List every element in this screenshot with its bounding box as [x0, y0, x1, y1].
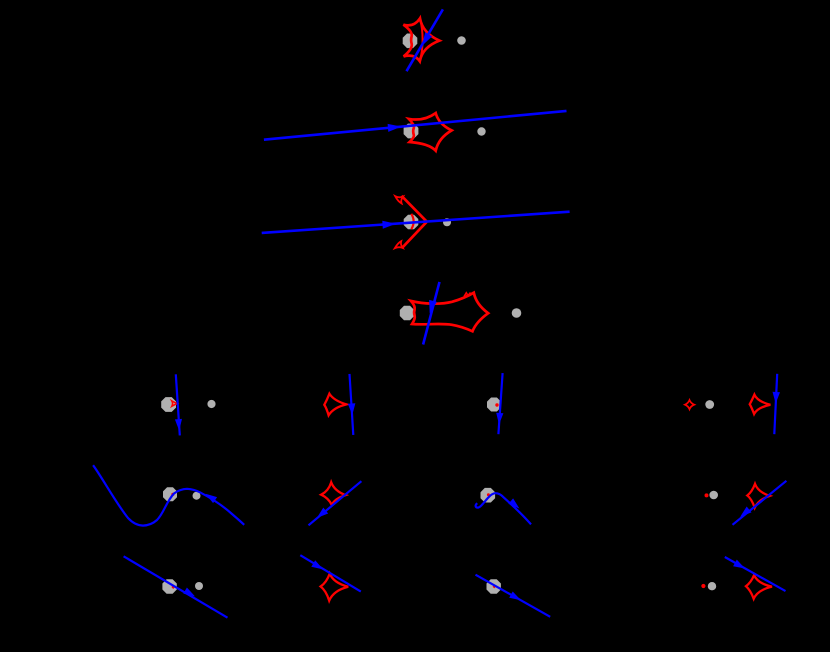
row1: source trajectory line	[407, 9, 443, 71]
row3: central caustic wedge upper arm	[402, 196, 427, 222]
b32: arrow	[311, 560, 323, 569]
b31: lens secondary dot	[195, 582, 203, 590]
row4: lens primary (gray octagon)	[400, 306, 414, 320]
b21: lens secondary dot	[193, 492, 201, 500]
b33: tiny red point caustic	[493, 585, 496, 588]
row3: source trajectory line	[262, 212, 570, 233]
row4: trajectory arrow	[429, 300, 437, 314]
b32: astroid caustic	[321, 574, 349, 601]
b31: trajectory line	[124, 556, 228, 617]
b33: trajectory line	[476, 575, 551, 617]
b24: tiny red caustic dot	[705, 493, 709, 497]
b11: lens secondary dot	[207, 400, 215, 408]
b32: trajectory line	[300, 555, 361, 591]
b13: tiny red point caustic	[495, 403, 498, 406]
row4: wide resonant caustic (red)	[411, 293, 488, 332]
b13: trajectory line	[498, 373, 502, 434]
row3: lens secondary (gray dot)	[443, 218, 451, 226]
b11: lens primary	[161, 397, 176, 412]
b23: lens (gray octagon)	[481, 488, 496, 503]
row1: inner fold doubling	[420, 18, 423, 61]
row2: source trajectory line	[264, 111, 567, 140]
b31: lens primary	[162, 579, 176, 593]
row4: source trajectory line	[423, 282, 439, 345]
b33: arrow	[509, 592, 521, 601]
b14: gray dot companion	[705, 400, 714, 409]
b21: tiny red caustic dot	[171, 493, 174, 496]
b21: parallax curved trajectory	[93, 465, 244, 525]
row3: central caustic wedge lower arm	[402, 222, 427, 248]
row3: lower triangular caustic	[395, 241, 403, 248]
row2: resonant caustic (red)	[409, 113, 452, 151]
b11: tiny central caustic	[172, 401, 178, 406]
b14: central caustic	[750, 395, 771, 414]
b34: gray dot companion	[708, 582, 716, 590]
b23: tiny red point caustic	[487, 493, 490, 496]
row2: lens primary (gray octagon)	[404, 124, 419, 139]
row4: lens secondary (gray dot)	[512, 308, 522, 318]
row1: lens primary (gray octagon)	[403, 34, 418, 49]
b11: arrow	[175, 419, 182, 431]
b13: lens (gray octagon)	[487, 398, 501, 412]
b23: curved trajectory with hook	[476, 493, 531, 524]
b21: arrow (pointing up-left along curve)	[206, 494, 218, 503]
row4: small cusp nub on top fold	[464, 293, 471, 297]
b14: arrow	[773, 392, 781, 404]
row3: trajectory arrow	[382, 221, 396, 229]
b22: arrow	[317, 508, 328, 518]
b24: gray dot companion	[709, 491, 718, 500]
b31: arrow	[183, 588, 195, 597]
b12: arrow	[348, 403, 356, 415]
row3: central caustic left fold arc	[411, 214, 413, 229]
b33: lens (gray octagon)	[487, 579, 501, 593]
b22: trajectory line	[309, 481, 362, 525]
row1: lens secondary (gray dot)	[457, 36, 466, 45]
b23: arrow	[508, 498, 519, 508]
b34: central caustic	[746, 575, 772, 599]
b11: trajectory line	[176, 374, 180, 435]
row1: trajectory arrow	[422, 32, 432, 46]
b12: astroid caustic	[324, 394, 346, 416]
row2: lens secondary (gray dot)	[477, 127, 485, 135]
row1: resonant caustic (red)	[403, 18, 439, 61]
row3: lens primary (gray octagon)	[404, 215, 419, 230]
b13: arrow	[496, 413, 503, 425]
b22: astroid caustic	[321, 482, 345, 505]
b34: trajectory line	[725, 557, 786, 591]
b24: central caustic	[747, 484, 769, 508]
b31: tiny red caustic diamond	[171, 585, 175, 589]
b14: trajectory line	[774, 374, 777, 434]
b14: small planetary caustic star	[685, 400, 694, 409]
b24: arrow	[740, 507, 751, 517]
b34: arrow	[733, 560, 745, 569]
b34: tiny red caustic dot	[701, 584, 705, 588]
b12: trajectory line	[350, 374, 354, 435]
b24: trajectory line	[733, 481, 787, 525]
row3: upper triangular caustic	[395, 196, 403, 203]
row2: trajectory arrow	[388, 124, 402, 132]
b21: lens primary	[163, 487, 177, 501]
